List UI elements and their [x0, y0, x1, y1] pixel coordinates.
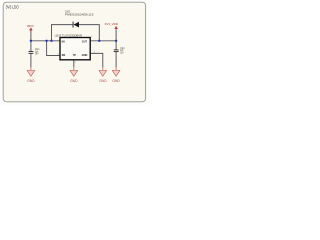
wire diode anode branch	[79, 25, 99, 41]
junction diode cathode branch	[50, 40, 52, 42]
wire 3V3_VDD stem	[115, 30, 117, 41]
sheet background	[0, 0, 150, 106]
wire VBUS stem	[30, 31, 32, 41]
svg-text:EN: EN	[62, 53, 65, 57]
wire C113 top lead	[30, 41, 32, 51]
wire C113 bottom lead	[30, 53, 32, 67]
svg-text:GND: GND	[99, 79, 107, 83]
junction EN branch	[45, 40, 47, 42]
wire output rail from OUT pin	[90, 40, 116, 42]
svg-text:PMEG2010AEB,115: PMEG2010AEB,115	[65, 13, 94, 17]
svg-text:VBUS: VBUS	[27, 24, 34, 28]
junction diode anode / output rail	[98, 40, 100, 42]
power port VBUS	[27, 24, 34, 31]
svg-text:3V3_VDD: 3V3_VDD	[105, 22, 119, 26]
ground below TP pad	[70, 67, 78, 83]
svg-text:IN: IN	[62, 40, 65, 44]
svg-text:OUT: OUT	[82, 40, 87, 44]
svg-text:U103 TLV70233DBVR: U103 TLV70233DBVR	[55, 33, 83, 37]
ground below C113	[27, 67, 35, 83]
svg-text:GND: GND	[70, 79, 78, 83]
ground below GND pin	[99, 67, 107, 83]
svg-text:10V: 10V	[120, 52, 124, 54]
junction input rail / VBUS / C113	[30, 40, 32, 42]
wire input rail to IN pin	[31, 40, 60, 42]
wire C114 bottom lead	[115, 52, 117, 68]
wire EN drop from input rail	[47, 41, 60, 56]
ground below C114	[112, 67, 120, 83]
capacitor C113 1uF 10V	[29, 49, 40, 56]
svg-text:TP: TP	[73, 53, 76, 57]
svg-text:3V3 LDO: 3V3 LDO	[6, 5, 20, 10]
svg-text:GND: GND	[27, 79, 35, 83]
wire TP pad to ground	[73, 60, 75, 67]
wire C114 top lead	[115, 41, 117, 50]
svg-text:10V: 10V	[35, 54, 39, 56]
capacitor C114 1uF 10V	[114, 48, 125, 55]
wire diode cathode branch	[52, 25, 73, 41]
power port 3V3_VDD	[105, 22, 119, 30]
op-amp U103 TLV70233DBVR regulator body	[55, 33, 90, 60]
svg-text:GND: GND	[112, 79, 120, 83]
svg-text:GND: GND	[82, 53, 88, 57]
junction output rail / C114	[115, 40, 117, 42]
sheet border frame	[3, 2, 145, 102]
wire GND pin to ground	[90, 53, 103, 67]
diode D103 PMEG2010AEB,115	[65, 10, 94, 28]
